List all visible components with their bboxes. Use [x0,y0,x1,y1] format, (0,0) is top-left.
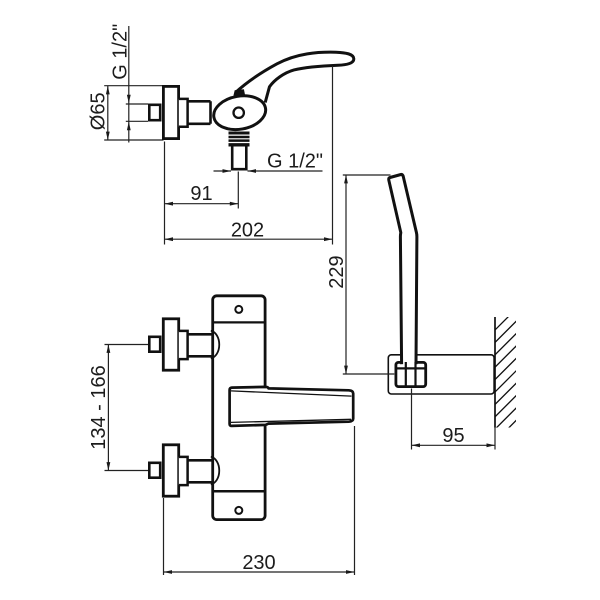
top connection pipe [189,334,213,356]
spout facet line bottom [231,419,351,422]
top connection flange [163,319,178,370]
dimension 134 - 166 [88,365,110,450]
svg-text:Ø65: Ø65 [88,92,110,130]
bottom connection collar [179,457,188,485]
arrow up to nipple bottom [127,122,131,131]
extension line shower top [343,174,391,176]
extension line right (spout tip) [354,426,356,575]
dimension 95 [442,425,464,447]
dimension 202 [231,219,264,241]
arrow up Ø65 [106,86,110,95]
extension line flange top [104,85,163,87]
cup retaining band [397,367,426,369]
bottom connection dome arc [211,457,219,485]
svg-text:229: 229 [326,255,348,288]
thread white lines [229,135,250,142]
arrow down Ø65 [106,132,110,141]
label Ø65 (flange diameter) [88,92,110,130]
wall flange (top view) [163,86,178,138]
svg-text:134 - 166: 134 - 166 [88,365,110,450]
holder cup [396,362,426,386]
arrow down to nipple top [127,95,131,104]
dimension 230 [242,552,275,574]
extension line wall plane (x=164.5) [164,142,166,245]
svg-text:G 1/2": G 1/2" [267,151,323,173]
spout facet line top [231,391,352,396]
mixer body plate [213,296,265,520]
holder bracket [388,355,494,394]
screw hole bottom [235,507,242,514]
svg-text:91: 91 [190,183,212,205]
handshower wand [389,174,417,364]
screw hole top [235,306,242,313]
extension line holder mid [343,373,395,375]
top connection collar [179,331,188,359]
cartridge ellipse [211,92,268,134]
spout [230,387,354,426]
dimension 229 [326,255,348,288]
top connection centerline stub [105,344,149,346]
bottom connection centerline stub [105,470,149,472]
wall hatching [490,300,525,447]
extension line nipple bottom [126,120,148,122]
bottom connection nipple [149,463,160,478]
dimension line Ø65 [107,86,109,140]
lever base connector [233,89,245,96]
body seam bottom [213,490,266,493]
outlet thread block [229,132,250,147]
top connection nipple [149,337,160,352]
body barrel [189,101,211,124]
svg-text:95: 95 [442,425,464,447]
wand end inside cup [406,362,416,387]
extension line flange bottom [104,139,163,141]
body seam top [213,321,266,323]
label G 1/2" (outlet) [267,151,323,173]
collar behind flange [179,99,188,127]
lever handle [236,52,354,102]
extension line nipple top [126,103,148,105]
bottom connection pipe [189,460,213,482]
extension line left (wall plane front) [163,498,165,575]
label G 1/2" (wall nipple, top view) [110,24,132,80]
svg-text:230: 230 [242,552,275,574]
bottom connection flange [163,445,178,496]
outlet pipe [232,147,246,170]
extension line holder centerline [411,389,413,450]
leader line outlet right tail with left arrow [248,170,323,172]
top connection dome arc [211,331,219,359]
leader line G 1/2" vertical [128,26,130,143]
wall nipple (top view) [149,105,160,120]
wall line [494,317,496,428]
dimension 91 [190,183,212,205]
leader line outlet left tail with right arrow [214,170,232,172]
svg-text:202: 202 [231,219,264,241]
cartridge center circle [234,108,244,118]
extension line lever end (x=332.5) [332,66,334,245]
extension line outlet centerline (x=238.3) [237,172,239,209]
